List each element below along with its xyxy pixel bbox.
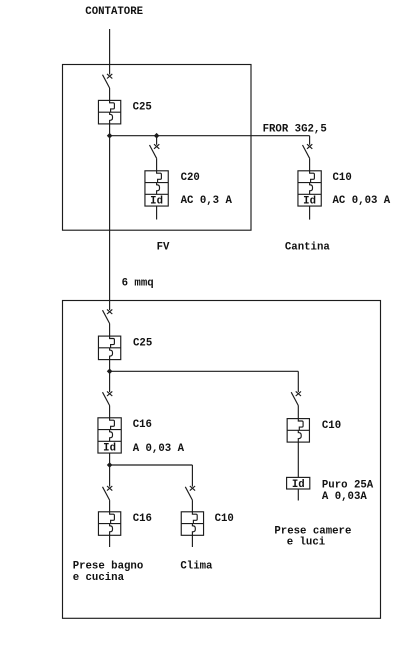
wire main riser down to quadro 2 — [109, 136, 111, 310]
breaker C25 thermal-magnetic unit — [98, 100, 120, 124]
wire to C10 cantina trip unit — [309, 158, 311, 171]
wire stub below C20 (load FV) — [156, 206, 158, 219]
breaker C10 camere thermal-magnetic unit — [287, 419, 309, 443]
wire C16 to node D — [109, 453, 111, 465]
svg-text:C10: C10 — [215, 513, 234, 525]
breaker C16 bagno thermal-magnetic unit — [98, 512, 120, 536]
svg-text:C25: C25 — [133, 102, 152, 114]
svg-text:C20: C20 — [181, 172, 200, 184]
wire from contatore down into panel FV — [109, 29, 111, 75]
bus node C horizontal wire — [110, 370, 299, 372]
wire stub below C10 clima — [191, 535, 193, 547]
wire node C down to C16 switch — [109, 371, 111, 392]
breaker C25 panel2 thermal-magnetic unit — [98, 336, 120, 360]
svg-text:FV: FV — [157, 242, 170, 254]
wire node B down to C20 switch — [156, 136, 158, 145]
svg-text:Prese camere: Prese camere — [274, 525, 351, 537]
wire node D down to clima switch — [191, 465, 193, 487]
svg-text:C16: C16 — [133, 419, 152, 431]
wire stub below differential — [297, 489, 299, 501]
bus node D horizontal wire — [110, 464, 193, 466]
wire stub below C10 (load cantina) — [309, 206, 311, 220]
wire C25 panel2 to node C — [109, 360, 111, 372]
svg-text:CONTATORE: CONTATORE — [85, 6, 143, 18]
breaker C16 bagno switch blade — [103, 486, 113, 500]
differential relay Id puro 25A box — [287, 477, 310, 489]
junction dot node D — [107, 462, 113, 468]
wire switch to C25 trip unit — [109, 88, 111, 100]
wire node D down to C16 bagno switch — [109, 465, 111, 487]
svg-text:C16: C16 — [133, 513, 152, 525]
svg-text:C25: C25 — [133, 337, 152, 349]
svg-text:AC 0,3 A: AC 0,3 A — [181, 195, 233, 207]
svg-text:Clima: Clima — [180, 560, 213, 572]
svg-text:C10: C10 — [333, 172, 352, 184]
bus node A horizontal wire — [110, 135, 310, 137]
wire node A to cantina switch — [309, 136, 311, 145]
RCBO C16 switch blade — [103, 391, 113, 405]
svg-text:Puro 25A: Puro 25A — [322, 480, 374, 492]
RCBO C20 thermal-magnetic + differential Id — [145, 171, 168, 208]
wire node C down to camere switch — [297, 371, 299, 392]
wire to C10 camere trip unit — [297, 406, 299, 419]
wire stub below C16 bagno — [109, 535, 111, 547]
breaker C25 panel2 switch blade — [103, 309, 113, 323]
svg-text:Prese bagno: Prese bagno — [73, 560, 144, 572]
enclosure panel 2 (quadro appartamento) — [63, 301, 381, 619]
svg-text:A 0,03A: A 0,03A — [322, 491, 367, 503]
svg-text:Id: Id — [150, 196, 163, 208]
wire to C20 trip unit — [156, 158, 158, 171]
svg-text:AC 0,03 A: AC 0,03 A — [333, 195, 391, 207]
enclosure panel FV (quadro 1) — [63, 65, 252, 231]
RCBO C16 thermal-magnetic + differential Id — [98, 418, 121, 455]
breaker C25 main switch blade — [103, 74, 113, 88]
svg-text:C10: C10 — [322, 420, 341, 432]
svg-text:6 mmq: 6 mmq — [122, 278, 154, 290]
svg-text:Id: Id — [103, 443, 116, 455]
breaker C10 clima switch blade — [185, 486, 195, 500]
junction dot node A — [107, 133, 113, 139]
RCBO C10 cantina thermal-magnetic + differential Id — [298, 171, 321, 208]
wire to C16 bagno trip unit — [109, 500, 111, 512]
svg-text:Cantina: Cantina — [285, 242, 330, 254]
junction dot node C — [107, 369, 113, 375]
breaker C10 camere switch blade — [291, 391, 301, 405]
wire C10 camere to differential Id — [297, 442, 299, 477]
svg-text:e cucina: e cucina — [73, 572, 125, 584]
junction dot node B — [154, 133, 160, 139]
svg-text:e luci: e luci — [287, 537, 325, 549]
breaker C10 cantina switch blade — [303, 144, 313, 158]
wire C25 to node A — [109, 124, 111, 136]
svg-text:A 0,03 A: A 0,03 A — [133, 443, 185, 455]
breaker C10 clima thermal-magnetic unit — [181, 512, 203, 536]
wire to C16 trip unit — [109, 406, 111, 418]
wire to C10 clima trip unit — [191, 500, 193, 512]
breaker C20 switch blade — [150, 144, 160, 158]
wire to C25 panel2 trip unit — [109, 324, 111, 337]
svg-text:Id: Id — [303, 196, 316, 208]
svg-text:FROR 3G2,5: FROR 3G2,5 — [263, 123, 327, 135]
